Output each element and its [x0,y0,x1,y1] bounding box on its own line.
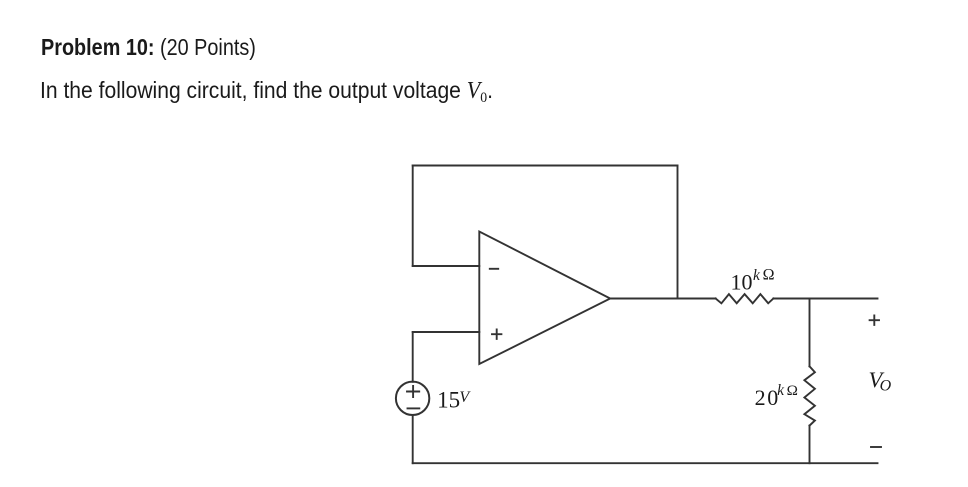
wire: non-inverting input stub [413,331,480,333]
label 20^kΩ [755,382,798,410]
wire: 20k resistor bottom to rail [809,426,811,464]
op-amp "+" non-inverting mark [492,330,501,339]
label "+" output polarity [870,316,879,325]
svg-text:k: k [777,382,785,399]
svg-text:Ω: Ω [763,267,775,284]
body text "In the following circuit, find the output voltage V0." [40,77,493,107]
voltage source "−" mark [408,407,420,409]
wire: feedback top horizontal [413,165,678,167]
resistor 10kΩ zigzag [716,294,774,303]
wire: node down to 20k resistor [809,299,811,367]
svg-text:V: V [459,389,471,406]
label 10^kΩ [731,267,775,295]
svg-text:20: 20 [755,385,780,410]
wire: feedback right vertical [677,166,679,299]
svg-text:O: O [880,378,892,395]
label 15^V [437,388,471,413]
heading "Problem 10: (20 Points)" [41,34,256,61]
label "−" output polarity [871,446,881,448]
wire: op-amp output to resistor [610,298,715,300]
wire: bottom rail [413,462,878,464]
wire: inverting input stub [413,265,480,267]
svg-text:15: 15 [437,388,460,413]
svg-text:Ω: Ω [787,382,798,399]
wire: feedback left vertical [412,166,414,267]
wire: vertical from + input down to source [412,332,414,382]
resistor 20kΩ vertical zigzag [804,366,815,425]
wire: source bottom to rail [412,415,414,463]
op-amp triangle [479,232,610,365]
op-amp "−" inverting mark [490,268,498,270]
svg-text:k: k [753,267,761,284]
label V_O output voltage [869,367,892,395]
voltage source "+" mark [407,386,419,397]
svg-text:10: 10 [731,270,753,295]
voltage source 15V circle [396,382,429,415]
wire: resistor to right edge (output node) [773,298,877,300]
